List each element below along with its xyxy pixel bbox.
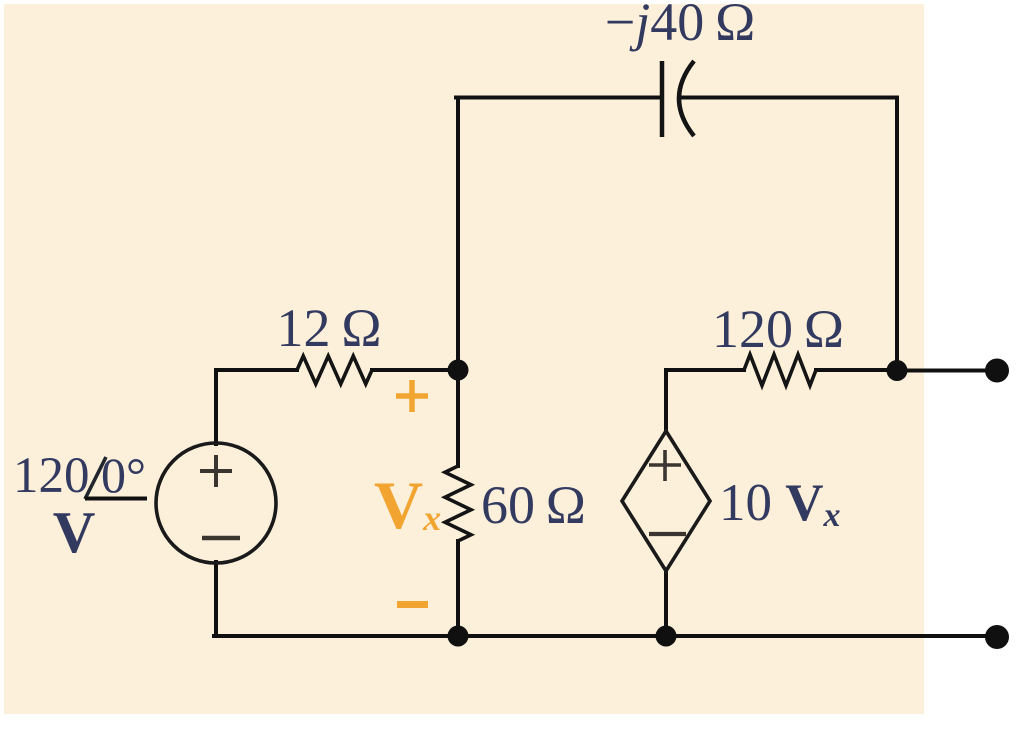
wire bottom rail	[214, 634, 995, 638]
svg-text:120 Ω: 120 Ω	[712, 299, 844, 359]
resistor R1 12 ohm zigzag	[297, 356, 372, 384]
U1 plus sign	[649, 450, 681, 481]
wire node A down to 60 ohm resistor	[456, 370, 460, 466]
wire 60 ohm resistor to bottom node	[456, 541, 460, 636]
wire capacitor to top-right corner and down to node B	[680, 98, 897, 371]
node B junction dot	[887, 360, 908, 381]
wire source bottom	[214, 562, 218, 636]
wire node B to right terminal	[897, 369, 993, 373]
dependent source U1 diamond	[622, 431, 710, 571]
node bottom-mid junction dot	[656, 626, 677, 647]
capacitor C1 -j40 ohm	[662, 61, 694, 137]
resistor R2 60 ohm zigzag	[445, 466, 471, 541]
V1 minus sign	[202, 536, 240, 541]
svg-text:V: V	[53, 499, 96, 565]
node bottom-left junction dot	[448, 626, 469, 647]
svg-text:120: 120	[13, 448, 90, 504]
svg-text:12 Ω: 12 Ω	[277, 298, 382, 358]
wire top horizontal to capacitor	[456, 96, 662, 100]
node A junction dot	[448, 360, 469, 381]
wire source top and to 12 ohm resistor	[216, 370, 297, 444]
wire 12 ohm resistor to node A	[372, 368, 458, 372]
resistor R3 120 ohm zigzag	[744, 355, 816, 386]
wire diamond bottom to bottom rail	[664, 571, 668, 636]
angle symbol slash	[85, 457, 106, 499]
svg-text:60 Ω: 60 Ω	[481, 475, 586, 535]
V1 plus sign	[200, 455, 232, 487]
svg-text:10 Vx: 10 Vx	[719, 474, 841, 534]
wire 120 ohm resistor to node B	[816, 368, 897, 372]
svg-text:−j40 Ω: −j40 Ω	[605, 0, 755, 52]
voltage source V1 circle	[156, 443, 276, 563]
wire diamond top to 120 ohm resistor	[666, 370, 744, 431]
wire top-left vertical from node A up	[456, 98, 460, 371]
svg-text:0°: 0°	[101, 447, 146, 503]
terminal a dot	[985, 359, 1009, 383]
terminal b dot	[985, 625, 1009, 649]
orange minus label	[397, 601, 428, 608]
orange plus label at node A	[396, 380, 428, 412]
angle symbol underline	[85, 497, 147, 501]
U1 minus sign	[649, 532, 686, 536]
